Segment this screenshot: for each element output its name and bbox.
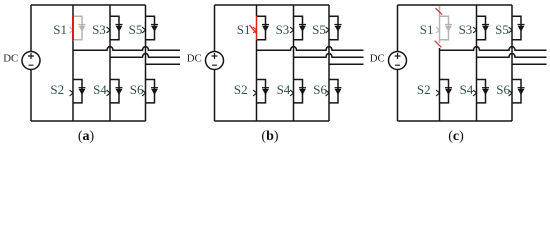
- svg-text:S4: S4: [93, 82, 107, 97]
- svg-text:S3: S3: [459, 22, 473, 37]
- svg-text:S3: S3: [276, 22, 290, 37]
- svg-text:S6: S6: [496, 82, 510, 97]
- svg-text:(c): (c): [448, 129, 464, 144]
- svg-text:S5: S5: [312, 22, 326, 37]
- svg-text:S6: S6: [130, 82, 144, 97]
- svg-text:DC: DC: [187, 53, 202, 65]
- svg-text:S5: S5: [495, 22, 509, 37]
- svg-text:S3: S3: [92, 22, 106, 37]
- svg-text:S1: S1: [237, 22, 251, 37]
- svg-text:S4: S4: [460, 82, 474, 97]
- svg-text:(a): (a): [78, 129, 95, 144]
- svg-text:S4: S4: [277, 82, 291, 97]
- svg-text:DC: DC: [370, 53, 385, 65]
- svg-text:S2: S2: [50, 82, 64, 97]
- svg-text:S2: S2: [417, 82, 431, 97]
- svg-text:DC: DC: [3, 53, 18, 65]
- svg-text:S2: S2: [234, 82, 248, 97]
- svg-text:S6: S6: [313, 82, 327, 97]
- svg-text:S1: S1: [53, 22, 67, 37]
- svg-text:S5: S5: [129, 22, 143, 37]
- svg-text:S1: S1: [420, 22, 434, 37]
- svg-text:(b): (b): [261, 129, 278, 144]
